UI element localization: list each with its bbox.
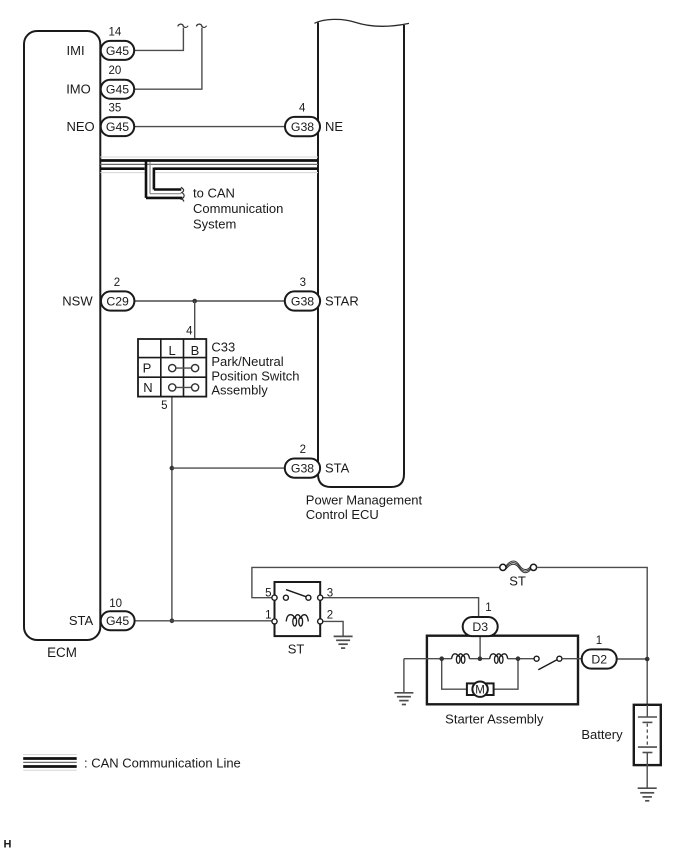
ST relay switch arm <box>286 590 308 598</box>
wire ST relay pin5 to fuse <box>252 567 500 597</box>
C33 Park/Neutral Position Switch Assembly label <box>211 340 299 398</box>
to CAN Communication System label <box>193 186 283 232</box>
connector D3 <box>463 617 498 636</box>
svg-text:C29: C29 <box>106 294 129 308</box>
svg-text:P: P <box>143 360 152 375</box>
svg-text:Starter Assembly: Starter Assembly <box>445 712 544 727</box>
svg-text:1: 1 <box>265 609 271 621</box>
svg-text:G45: G45 <box>106 614 129 628</box>
svg-text:ST: ST <box>288 642 305 657</box>
starter switch arm <box>538 660 557 670</box>
wire battery to ground <box>646 765 648 788</box>
svg-text:D2: D2 <box>591 652 607 666</box>
ECM box <box>24 31 100 640</box>
svg-text:G45: G45 <box>106 44 129 58</box>
wire ST relay pin3 to D3 <box>323 598 479 617</box>
svg-text:3: 3 <box>327 587 333 599</box>
CAN branch to CAN communication system <box>146 160 184 202</box>
svg-text:B: B <box>191 343 200 358</box>
connector D2 <box>582 649 617 668</box>
node junction on STA wire <box>170 619 175 624</box>
ground at battery <box>638 788 657 801</box>
C33 Park/Neutral Position Switch table <box>138 339 206 397</box>
svg-text:20: 20 <box>109 65 122 77</box>
node junction starter middle <box>478 656 483 661</box>
wire STA G45 to ST relay pin1 <box>135 620 272 622</box>
svg-text:to CAN: to CAN <box>193 186 235 201</box>
ground at ST relay <box>334 636 353 648</box>
svg-text:2: 2 <box>300 444 306 456</box>
wire between coils <box>470 658 490 660</box>
CAN legend symbol <box>23 755 76 771</box>
svg-text:M: M <box>475 684 485 696</box>
svg-text:STAR: STAR <box>325 293 359 308</box>
svg-text:NSW: NSW <box>62 293 93 308</box>
wire ST relay pin2 to ground <box>323 621 343 636</box>
svg-text:2: 2 <box>327 609 333 621</box>
connector G38 STA <box>285 459 320 478</box>
C33 cell labels <box>143 343 200 395</box>
svg-text:G38: G38 <box>291 294 314 308</box>
svg-text:3: 3 <box>300 277 306 289</box>
svg-text:Communication: Communication <box>193 201 283 216</box>
svg-text:D3: D3 <box>472 620 488 634</box>
wire starter main line left segment with external ground <box>404 658 452 660</box>
connector G38 NE <box>285 117 320 136</box>
svg-text:2: 2 <box>114 277 120 289</box>
svg-text:NE: NE <box>325 119 343 134</box>
connector G45 NEO <box>101 117 135 136</box>
svg-text:5: 5 <box>265 587 271 599</box>
wire NEO to NE <box>134 126 285 128</box>
wire IMO to shield terminator <box>134 28 202 90</box>
ground at starter <box>394 693 413 705</box>
Power Management Control ECU label <box>306 493 423 523</box>
wire IMI to shield terminator <box>134 28 183 51</box>
svg-text:IMO: IMO <box>66 82 91 97</box>
CAN trunk line <box>100 157 318 173</box>
wire NSW to STAR <box>134 300 284 302</box>
svg-text:G45: G45 <box>106 83 129 97</box>
svg-text:4: 4 <box>299 102 306 114</box>
svg-text:: CAN Communication Line: : CAN Communication Line <box>84 756 241 771</box>
svg-text:G38: G38 <box>291 461 314 475</box>
C33 P row contacts <box>169 365 199 372</box>
svg-text:5: 5 <box>161 400 167 412</box>
node junction to G38 STA <box>170 466 175 471</box>
wire junction down to C33 pin 4 <box>194 301 196 339</box>
wire switch to D2 <box>562 658 582 660</box>
svg-text:NEO: NEO <box>67 119 95 134</box>
connector G45 IMI <box>101 41 135 60</box>
svg-text:L: L <box>168 343 175 358</box>
node junction on NSW wire <box>192 299 197 304</box>
wire motor right branch <box>494 659 518 690</box>
starter coil 1 <box>452 654 470 664</box>
node junction at battery line <box>645 657 650 662</box>
svg-text:14: 14 <box>109 26 122 38</box>
Starter Assembly box <box>427 636 578 705</box>
svg-text:C33: C33 <box>211 340 235 355</box>
starter switch contacts <box>534 656 562 661</box>
svg-text:Battery: Battery <box>581 727 623 742</box>
wire fuse to battery line <box>537 567 648 704</box>
svg-text:G45: G45 <box>106 120 129 134</box>
svg-text:1: 1 <box>485 602 491 614</box>
wire D3 down into starter <box>479 636 481 659</box>
wavy top edge of ECU box <box>314 19 409 26</box>
svg-text:Assembly: Assembly <box>211 383 268 398</box>
ST relay terminals <box>272 595 323 624</box>
motor M <box>467 682 494 697</box>
ST relay coil <box>286 615 308 626</box>
svg-text:H: H <box>4 838 12 850</box>
svg-text:ECM: ECM <box>47 645 77 660</box>
svg-text:10: 10 <box>109 598 122 610</box>
shield terminator curl 1 <box>178 24 188 27</box>
svg-text:System: System <box>193 217 236 232</box>
connector G45 STA <box>101 611 135 630</box>
svg-text:Park/Neutral: Park/Neutral <box>211 354 283 369</box>
svg-text:STA: STA <box>69 613 94 628</box>
svg-text:1: 1 <box>596 635 602 647</box>
wire C33 pin5 down to STA wire <box>171 397 173 621</box>
connector G45 IMO <box>101 80 135 99</box>
svg-text:IMI: IMI <box>67 43 85 58</box>
wire coil2 to switch <box>508 658 534 660</box>
wire D2 to battery line <box>617 658 648 660</box>
svg-text:STA: STA <box>325 460 350 475</box>
starter coil 2 <box>490 654 508 664</box>
Power Management Control ECU box <box>318 23 404 488</box>
svg-text:35: 35 <box>109 103 122 115</box>
Battery <box>634 705 661 765</box>
svg-text:Control ECU: Control ECU <box>306 507 379 522</box>
svg-text:Power Management: Power Management <box>306 493 423 508</box>
svg-text:ST: ST <box>509 574 526 589</box>
svg-text:G38: G38 <box>291 120 314 134</box>
svg-text:Position Switch: Position Switch <box>211 368 299 383</box>
wire motor left branch <box>442 659 467 690</box>
fuse ST <box>500 561 537 573</box>
svg-text:4: 4 <box>186 325 193 337</box>
C33 N row contacts <box>169 384 199 391</box>
node junction starter left <box>439 656 444 661</box>
connector G38 STAR <box>285 291 320 310</box>
ST relay switch contacts <box>283 595 311 600</box>
ST relay box <box>275 582 321 636</box>
wire junction to G38 STA <box>172 467 285 469</box>
connector C29 NSW <box>101 291 134 310</box>
ST relay pin labels <box>265 587 333 621</box>
shield terminator curl 2 <box>197 24 207 27</box>
node junction starter right <box>516 656 521 661</box>
svg-text:N: N <box>143 380 152 395</box>
